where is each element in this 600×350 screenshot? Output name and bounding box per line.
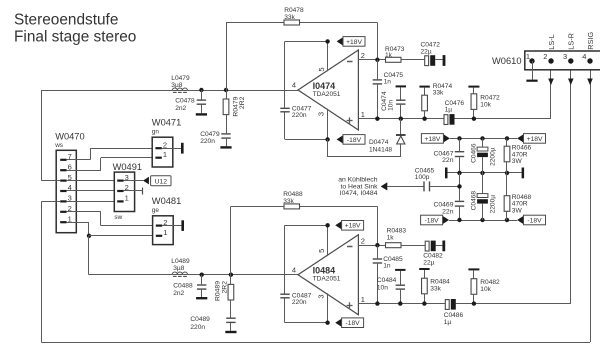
wire: W0491 pin 3 to U12 flag <box>124 180 144 182</box>
node: middle rail junction C0466/C0468 <box>480 171 484 175</box>
svg-text:W0610: W0610 <box>492 56 521 66</box>
node: +18V rail junction R0466 <box>505 136 509 140</box>
svg-text:ws: ws <box>54 142 63 149</box>
svg-text:1: 1 <box>163 150 167 159</box>
svg-text:W0491: W0491 <box>113 162 142 172</box>
wire: feedback net lower <box>231 206 378 274</box>
svg-text:1: 1 <box>125 194 129 203</box>
svg-text:4: 4 <box>292 81 296 90</box>
wire: +18V supply rail <box>450 138 517 140</box>
svg-text:I0474, I0484: I0474, I0484 <box>340 190 378 197</box>
resistor R0474 <box>419 83 452 119</box>
node: junction input/R0479/feedback <box>224 88 228 92</box>
node: rail junction R0482 <box>472 301 476 305</box>
wire: W0470 pin 7 to W0471 pin 2 <box>67 148 155 160</box>
wire: lower input net <box>89 274 298 276</box>
svg-text:100p: 100p <box>415 174 430 181</box>
capacitor C0484 <box>377 269 406 304</box>
svg-text:3µ8: 3µ8 <box>171 82 182 89</box>
diode D0474 <box>328 119 406 157</box>
signal arrow RSIG <box>587 79 593 86</box>
svg-text:22n: 22n <box>442 157 454 164</box>
svg-text:D0474: D0474 <box>369 139 389 146</box>
wire: W0470 pin 2 to W0481 pin 2 <box>67 212 156 226</box>
connector W0471 <box>152 117 181 167</box>
svg-text:10k: 10k <box>480 286 491 293</box>
svg-text:4: 4 <box>292 265 296 274</box>
svg-text:gn: gn <box>152 129 160 136</box>
node: rail junction C0475 <box>375 117 379 121</box>
resistor R0478 <box>284 7 304 25</box>
wire: RSIG net from W0610 pin 4 to W0470 pin 3 <box>41 61 590 342</box>
svg-text:2: 2 <box>361 51 365 60</box>
wire: -18V to pin 3 of I0484 <box>285 293 328 322</box>
inductor L0479 <box>171 75 190 92</box>
wire: +18V to pin 5 of I0474 <box>285 41 328 71</box>
capacitor C0489 <box>190 316 236 333</box>
pin label LS-L <box>547 34 556 49</box>
svg-text:22µ: 22µ <box>423 260 434 267</box>
svg-text:L0479: L0479 <box>171 75 190 82</box>
op-amp I0484 <box>292 235 365 315</box>
node: output junction upper <box>375 58 379 62</box>
wire: W0470 pin 6 to W0471 pin 1 <box>67 158 155 171</box>
wire: feedback net upper <box>226 23 378 91</box>
svg-text:2n2: 2n2 <box>175 105 186 112</box>
svg-text:C0468: C0468 <box>470 191 477 211</box>
svg-text:sw: sw <box>114 214 122 221</box>
svg-text:1: 1 <box>361 295 365 304</box>
svg-text:2200µ: 2200µ <box>489 147 496 166</box>
svg-text:LS-L: LS-L <box>547 34 556 49</box>
chassis bar at W0610 pin 1 <box>526 80 537 82</box>
capacitor C0468 <box>470 173 496 220</box>
connector W0470 <box>54 132 84 233</box>
resistor R0484 <box>419 268 450 304</box>
svg-text:+18V: +18V <box>424 136 440 143</box>
node: -18V rail junction C0468 <box>480 218 484 222</box>
node: rail junction C0484 <box>398 301 402 305</box>
svg-text:C0466: C0466 <box>470 143 477 163</box>
svg-text:C0489: C0489 <box>190 316 210 323</box>
pin label LS-R <box>567 33 576 50</box>
heatsink note text <box>338 177 378 198</box>
capacitor C0474 <box>381 85 406 118</box>
capacitor C0486 <box>444 299 464 326</box>
node: rail junction R0472 <box>472 117 476 121</box>
pin label RSIG <box>586 32 595 50</box>
power flag +18V upper <box>337 37 365 47</box>
svg-text:C0479: C0479 <box>200 131 220 138</box>
power flag -18V supply left <box>421 215 449 225</box>
svg-text:22µ: 22µ <box>421 49 432 56</box>
svg-text:Stereoendstufe: Stereoendstufe <box>14 12 118 29</box>
svg-text:-18V: -18V <box>347 137 362 144</box>
wire: W0470 pin 4 to W0491 pin 2 <box>67 190 120 192</box>
resistor R0482 <box>468 268 500 303</box>
node: middle rail junction R0466/R0468 <box>505 171 509 175</box>
svg-text:C0484: C0484 <box>377 277 397 284</box>
svg-text:C0472: C0472 <box>421 42 441 49</box>
terminal bar middle rail left <box>445 168 448 179</box>
power flag -18V upper <box>337 135 365 145</box>
wire: W0470 pin 5 to input net and W0491 pin 3 <box>41 180 120 182</box>
svg-text:-18V: -18V <box>527 217 542 224</box>
capacitor C0476 <box>444 100 464 125</box>
svg-text:3W: 3W <box>512 158 523 165</box>
wire: -18V supply rail <box>449 220 517 222</box>
resistor R0466 <box>504 138 531 173</box>
capacitor C0472 <box>421 42 443 66</box>
resistor R0472 <box>468 86 500 119</box>
resistor R0479 <box>223 90 246 133</box>
power flag +18V supply right <box>517 134 545 144</box>
svg-text:LS-R: LS-R <box>567 33 576 50</box>
resistor R0489 <box>215 275 234 319</box>
svg-text:R0484: R0484 <box>430 278 450 285</box>
wire: pin 1 rail upper <box>359 118 552 120</box>
svg-text:R0482: R0482 <box>480 279 500 286</box>
svg-text:R0483: R0483 <box>387 228 407 235</box>
svg-text:5: 5 <box>317 249 326 253</box>
svg-text:2R2: 2R2 <box>239 96 246 109</box>
node: rail junction C0485 lower <box>375 301 379 305</box>
svg-text:1k: 1k <box>387 235 395 242</box>
svg-text:+18V: +18V <box>527 136 543 143</box>
svg-text:33k: 33k <box>284 14 295 21</box>
svg-text:33k: 33k <box>283 198 294 205</box>
capacitor C0467 <box>433 138 464 173</box>
wire: output net pin 2 upper <box>359 59 386 61</box>
svg-text:C0478: C0478 <box>175 98 195 105</box>
svg-text:1n: 1n <box>383 263 391 270</box>
node A: junction W0481 pin 1 / lower input <box>87 234 156 275</box>
wire: left input net from W0470 pin 5 up to L0479 <box>41 90 172 181</box>
svg-text:1n: 1n <box>384 79 392 86</box>
svg-text:1µ: 1µ <box>444 319 452 326</box>
terminal bar at W0471 pin 2 <box>181 143 184 154</box>
title text <box>14 12 136 46</box>
resistor R0468 <box>504 173 531 220</box>
capacitor C0478 <box>175 90 207 116</box>
svg-text:220n: 220n <box>292 299 307 306</box>
power flag +18V lower <box>335 221 363 231</box>
connector W0491 <box>113 162 142 221</box>
svg-text:3µ8: 3µ8 <box>173 265 184 272</box>
capacitor C0469 <box>433 201 464 220</box>
terminal bar after C0482 <box>442 241 445 252</box>
arrow to heatsink <box>381 182 388 190</box>
node: rail junction R0474 <box>422 117 426 121</box>
svg-text:I0474: I0474 <box>313 81 336 91</box>
wire: LS-R net to W0610 pin 3 <box>570 61 572 303</box>
wire: W0470 pin 1 to node A <box>67 222 89 236</box>
svg-text:-18V: -18V <box>346 320 361 327</box>
capacitor C0477 <box>280 41 311 139</box>
node: junction C0465/column A <box>457 184 461 188</box>
capacitor C0479 <box>200 131 231 148</box>
svg-text:3: 3 <box>316 294 325 298</box>
op-amp I0474 <box>292 50 365 130</box>
capacitor C0475 <box>373 60 404 119</box>
capacitor C0465 <box>387 167 459 191</box>
flag U12 <box>143 176 171 186</box>
svg-text:C0488: C0488 <box>173 283 193 290</box>
svg-text:5: 5 <box>317 67 326 71</box>
resistor R0473 <box>385 46 425 62</box>
svg-text:2: 2 <box>543 52 547 61</box>
svg-text:W0481: W0481 <box>152 196 181 206</box>
svg-text:1: 1 <box>361 110 365 119</box>
svg-text:-18V: -18V <box>425 217 440 224</box>
capacitor C0466 <box>470 138 496 173</box>
svg-text:C0486: C0486 <box>444 312 464 319</box>
capacitor C0488 <box>173 275 207 300</box>
svg-text:1: 1 <box>526 52 530 61</box>
power flag -18V supply right <box>517 215 545 225</box>
wire: W0471 pin 2 to terminal bar <box>162 148 181 150</box>
inductor L0489 <box>171 258 190 276</box>
svg-text:3: 3 <box>316 112 325 116</box>
node: middle rail junction column A <box>457 171 461 175</box>
svg-text:TDA2051: TDA2051 <box>313 275 341 282</box>
wire: -18V to pin 3 of I0474 <box>285 109 328 140</box>
node: -18V rail junction C0469 <box>457 218 461 222</box>
svg-text:10k: 10k <box>480 101 491 108</box>
svg-text:I0484: I0484 <box>313 266 336 276</box>
terminal bar at W0481 pin 2 <box>181 220 184 231</box>
svg-text:220n: 220n <box>292 112 307 119</box>
node: +18V junction upper <box>325 39 329 43</box>
svg-text:220n: 220n <box>200 138 215 145</box>
svg-text:1k: 1k <box>385 52 393 59</box>
wire: W0481 pin 2 to terminal bar <box>162 225 181 227</box>
svg-text:W0470: W0470 <box>55 132 84 142</box>
wire: column A middle segment <box>459 173 461 201</box>
node: rail junction R0484 <box>422 301 426 305</box>
svg-text:2200µ: 2200µ <box>489 195 496 214</box>
resistor R0488 <box>283 191 303 209</box>
node: junction L0479/C0478 <box>199 88 203 92</box>
svg-text:3W: 3W <box>512 208 523 215</box>
svg-text:1N4148: 1N4148 <box>369 146 392 153</box>
node: junction L0489/C0488 <box>200 273 204 277</box>
wire: middle rail <box>448 172 522 174</box>
capacitor C0482 <box>423 241 443 267</box>
svg-text:33k: 33k <box>433 90 444 97</box>
node: +18V rail junction C0466 <box>480 136 484 140</box>
terminal bar middle rail right <box>522 168 525 179</box>
svg-text:1: 1 <box>163 228 167 237</box>
svg-text:10n: 10n <box>388 100 395 111</box>
node: +18V junction lower <box>325 223 329 227</box>
wire: W0610 pin 1 to chassis bar <box>532 61 534 80</box>
node: +18V rail junction C0467 <box>457 136 461 140</box>
signal arrow LS-R <box>568 79 574 86</box>
node: output junction lower <box>375 243 379 247</box>
node: -18V junction lower <box>325 321 329 325</box>
power flag -18V lower <box>335 318 363 328</box>
svg-text:2: 2 <box>361 237 365 246</box>
capacitor C0485 <box>373 245 403 303</box>
wire: pin 1 rail lower <box>359 303 571 305</box>
terminal bar after C0472 <box>443 55 446 66</box>
svg-text:+18V: +18V <box>346 39 362 46</box>
connector W0610 <box>492 51 600 70</box>
capacitor C0487 <box>280 225 311 322</box>
node: rail junction C0474/D0474 <box>399 117 403 121</box>
wire: W0491 pin 2 stub <box>124 190 142 192</box>
node: -18V rail junction R0468 <box>505 218 509 222</box>
signal arrow LS-L <box>548 79 554 86</box>
svg-text:U12: U12 <box>155 179 168 186</box>
connector W0481 <box>152 196 181 245</box>
svg-text:TDA2051: TDA2051 <box>313 91 341 98</box>
wire: input node after L0479 <box>188 90 299 92</box>
svg-text:R0488: R0488 <box>283 191 303 198</box>
wire: W0470 pin 3 to RSIG net and W0491 pin 1 <box>41 201 120 342</box>
wire: +18V to pin 5 of I0484 <box>285 225 328 256</box>
svg-text:1µ: 1µ <box>445 107 453 114</box>
resistor R0483 <box>386 228 426 248</box>
svg-text:+18V: +18V <box>345 223 361 230</box>
node: junction input/R0489/feedback lower <box>229 273 233 277</box>
svg-text:W0471: W0471 <box>152 117 181 127</box>
svg-text:2n2: 2n2 <box>173 290 184 297</box>
terminal mark W0491 pin 2 <box>142 188 143 195</box>
svg-text:3: 3 <box>563 52 567 61</box>
wire: output net pin 2 lower <box>359 245 386 247</box>
svg-text:RSIG: RSIG <box>586 32 595 50</box>
svg-text:2R2: 2R2 <box>222 281 229 294</box>
svg-text:Final stage stereo: Final stage stereo <box>14 28 136 45</box>
wire: LS-L net to W0610 pin 2 <box>550 61 552 118</box>
svg-text:22n: 22n <box>442 208 454 215</box>
svg-text:220n: 220n <box>190 324 205 331</box>
svg-text:33k: 33k <box>430 285 441 292</box>
power flag +18V supply left <box>421 134 449 144</box>
node: -18V junction upper <box>325 137 329 141</box>
svg-text:4: 4 <box>582 52 586 61</box>
svg-text:ge: ge <box>152 207 160 214</box>
svg-text:10n: 10n <box>377 285 388 292</box>
